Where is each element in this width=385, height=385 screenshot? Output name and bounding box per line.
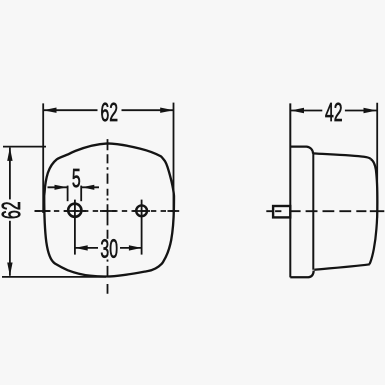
svg-text:42: 42 [325, 100, 343, 128]
svg-text:62: 62 [0, 201, 26, 219]
svg-text:30: 30 [100, 236, 118, 264]
svg-text:62: 62 [101, 99, 119, 127]
svg-text:5: 5 [72, 165, 81, 193]
